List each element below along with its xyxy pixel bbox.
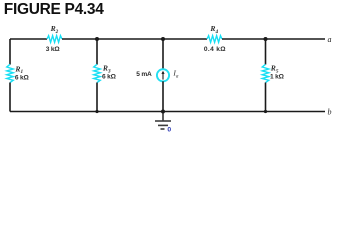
ground label 0	[167, 127, 171, 134]
svg-text:1 kΩ: 1 kΩ	[270, 74, 285, 81]
svg-text:6 kΩ: 6 kΩ	[15, 74, 30, 81]
figure title	[4, 1, 104, 18]
svg-text:0: 0	[167, 127, 171, 134]
value label 1 kΩ	[270, 74, 285, 81]
junction: R3 bottom	[95, 110, 98, 113]
svg-text:5 mA: 5 mA	[136, 71, 152, 78]
junction: R3 top	[95, 37, 99, 41]
wire: R5 branch upper	[265, 39, 267, 65]
ground	[155, 112, 171, 130]
label R3	[102, 64, 111, 75]
value label 3 kΩ	[46, 46, 61, 53]
wire: bottom rail	[10, 111, 325, 113]
svg-text:R2: R2	[50, 24, 59, 35]
label Ia	[172, 69, 179, 80]
svg-text:a: a	[328, 35, 332, 44]
label R4	[209, 24, 218, 35]
value label 0.4 kΩ	[204, 46, 226, 53]
wire: source branch lower	[162, 81, 164, 111]
wire: R3 branch upper	[96, 39, 98, 65]
svg-text:FIGURE P4.34: FIGURE P4.34	[4, 1, 104, 18]
resistor R4	[207, 36, 222, 43]
wire: top-left segment	[10, 38, 47, 40]
resistor R3	[94, 64, 101, 82]
value label 6 kΩ	[15, 74, 30, 81]
svg-text:0.4 kΩ: 0.4 kΩ	[204, 46, 226, 53]
label R1	[14, 64, 23, 75]
resistor R1	[7, 64, 14, 82]
label R2	[50, 24, 59, 35]
wire: R3 branch lower	[96, 83, 98, 112]
wire: top-right segment	[222, 38, 325, 40]
value label 5 mA	[136, 71, 152, 78]
svg-text:b: b	[328, 108, 332, 117]
node a	[328, 35, 332, 44]
label R5	[270, 64, 279, 75]
resistor R2	[47, 36, 62, 43]
svg-text:3 kΩ: 3 kΩ	[46, 46, 61, 53]
wire: top-middle segment	[62, 38, 207, 40]
resistor R5	[262, 64, 269, 82]
svg-text:6 kΩ: 6 kΩ	[102, 74, 117, 81]
svg-text:R4: R4	[209, 24, 218, 35]
wire: source branch upper	[162, 39, 164, 69]
node b	[328, 108, 332, 117]
junction: source top	[161, 37, 165, 41]
junction: source bottom / ground node	[161, 110, 165, 114]
wire: left branch upper	[9, 39, 11, 65]
wire: R5 branch lower	[265, 83, 267, 112]
value label 6 kΩ	[102, 74, 117, 81]
junction: R5 bottom	[264, 110, 267, 113]
junction: R5 top	[264, 37, 268, 41]
svg-text:Ia: Ia	[172, 69, 179, 80]
current source Ia (5 mA)	[157, 69, 169, 81]
wire: left branch lower	[9, 83, 11, 112]
